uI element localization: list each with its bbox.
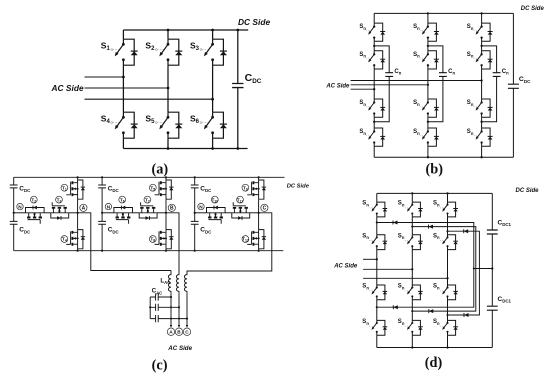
transistor T11 (c) xyxy=(232,213,250,218)
switch Sn leg3 pos3 (d) xyxy=(448,285,456,300)
wire phase C to transformer (c) xyxy=(187,213,272,271)
transistor T9 (c) xyxy=(258,180,260,199)
wire DC+ top rail (c) xyxy=(14,176,285,178)
switch Sn leg3 pos3 (b) xyxy=(482,99,491,117)
node top rail leg3 (b) xyxy=(480,12,482,14)
svg-text:Sn: Sn xyxy=(413,100,420,107)
node flying-cap top leg 2 (b) xyxy=(427,45,429,47)
wire phase leg 3 (b) xyxy=(481,13,483,157)
wire DC-link vertical (a) xyxy=(237,30,239,149)
node bottom rail leg module 3 (c) xyxy=(258,250,260,252)
capacitor Cn leg 2 (b) xyxy=(439,73,447,77)
wire T2 to T3 (c) xyxy=(44,212,51,214)
wire module 3 DC-cap string (c) xyxy=(194,177,196,250)
svg-text:(b): (b) xyxy=(426,161,444,177)
node AC tap 2 (d) xyxy=(411,268,413,270)
inductor coil phase B (c) xyxy=(176,271,179,294)
wire T3 to leg (c) xyxy=(69,212,78,214)
wire phase leg 2 (a) xyxy=(167,30,169,149)
svg-text:Sn: Sn xyxy=(362,201,369,208)
svg-text:AC Side: AC Side xyxy=(333,264,358,270)
clamp diode upper leg 2 (d) xyxy=(412,227,476,269)
wire DC- bottom rail (b) xyxy=(374,156,513,158)
switch Sn leg3 pos1 (b) xyxy=(482,23,491,41)
switch Sn leg1 pos4 (d) xyxy=(377,320,385,335)
wire T6 to T7 (c) xyxy=(133,212,140,214)
capacitor Cn leg 3 (b) xyxy=(493,73,501,77)
node bottom rail leg module 2 (c) xyxy=(165,250,167,252)
switch Sn leg2 pos4 (d) xyxy=(412,320,420,335)
svg-text:Sn: Sn xyxy=(362,233,369,240)
wire DC-link vertical (b) xyxy=(512,13,514,157)
switch S6 (a) xyxy=(213,112,224,138)
wire phase A drop (c) xyxy=(170,294,172,327)
node top rail leg2 (b) xyxy=(427,12,429,14)
clamp diode upper leg 3 (d) xyxy=(448,231,480,268)
wire DC- bottom rail (c) xyxy=(14,250,284,252)
node bottom rail leg3 (b) xyxy=(480,156,482,158)
clamp diode lower leg 1 (d) xyxy=(377,269,474,308)
svg-text:Sn: Sn xyxy=(398,233,405,240)
svg-text:Sn: Sn xyxy=(467,100,474,107)
switch Sn leg2 pos1 (b) xyxy=(428,23,437,41)
node bottom rail leg2 (a) xyxy=(167,147,170,150)
node bottom rail module 3 left (c) xyxy=(194,250,196,252)
node N module 1 (c) xyxy=(13,212,15,214)
svg-text:Sn: Sn xyxy=(362,319,369,326)
svg-text:B: B xyxy=(170,206,174,212)
node filter tap 1 (c) xyxy=(170,296,172,298)
transistor T3 (c) xyxy=(51,213,69,218)
filter capacitor bus (c) xyxy=(149,297,151,319)
svg-text:AC Side: AC Side xyxy=(51,83,84,93)
switch Sn leg1 pos3 (b) xyxy=(374,99,383,117)
svg-text:C: C xyxy=(263,206,267,212)
node phase output module 3 (c) xyxy=(258,212,260,214)
wire neutral tie (d) xyxy=(474,268,493,270)
svg-text:Sn: Sn xyxy=(433,201,440,208)
svg-text:(c): (c) xyxy=(152,358,168,374)
node top rail leg3 (d) xyxy=(446,192,448,194)
wire phase B to transformer (c) xyxy=(166,213,179,271)
transistor T1 (c) xyxy=(77,180,79,199)
wire AC line 1 (a) xyxy=(85,76,124,78)
svg-text:AC Side: AC Side xyxy=(325,83,350,89)
inductor coil phase C (c) xyxy=(184,271,187,294)
svg-text:A: A xyxy=(82,206,86,212)
node neutral / DC-link midpoint (d) xyxy=(491,267,493,269)
node flying-cap top leg 3 (b) xyxy=(480,45,482,47)
transistor T4 (c) xyxy=(77,230,79,249)
svg-text:DC Side: DC Side xyxy=(516,188,540,194)
node top rail leg2 (a) xyxy=(167,29,170,32)
capacitor CDC top module 2 (c) xyxy=(98,185,106,188)
capacitor CDC bottom module 2 (c) xyxy=(98,221,106,224)
switch Sn leg2 pos3 (d) xyxy=(412,285,420,300)
svg-text:Cn: Cn xyxy=(448,69,455,76)
clamp diode upper leg 1 (d) xyxy=(377,223,474,269)
node AC tap 3 (b) xyxy=(373,88,375,90)
wire phase leg 1 (b) xyxy=(373,13,375,157)
switch S3 (a) xyxy=(213,39,224,65)
switch S5 (a) xyxy=(168,112,179,138)
inductor coil phase A (c) xyxy=(168,271,171,294)
switch Sn leg3 pos4 (b) xyxy=(482,128,491,146)
svg-text:Sn: Sn xyxy=(467,129,474,136)
node bottom rail leg3 (a) xyxy=(211,147,214,150)
svg-text:Sn: Sn xyxy=(398,284,405,291)
wire phase leg 1 (a) xyxy=(122,30,124,149)
node filter tap 3 (c) xyxy=(186,318,188,320)
svg-text:Sn: Sn xyxy=(413,52,420,59)
wire AC line 3 (a) xyxy=(85,98,213,100)
capacitor CDC top module 1 (c) xyxy=(10,185,18,188)
node bottom rail leg module 1 (c) xyxy=(77,250,79,252)
wire phase leg 2 (b) xyxy=(427,13,429,157)
switch Sn leg1 pos3 (d) xyxy=(377,285,385,300)
wire N to T10 (c) xyxy=(195,212,207,214)
capacitor CDC (a) xyxy=(232,84,243,88)
switch Sn leg1 pos4 (b) xyxy=(374,128,383,146)
node flying-cap bottom leg 2 (b) xyxy=(427,121,429,123)
node AC tap 2 (a) xyxy=(167,87,170,90)
node top rail leg2 (d) xyxy=(411,192,413,194)
wire phase leg module 2 (c) xyxy=(165,177,167,250)
switch Sn leg1 pos2 (d) xyxy=(377,235,385,250)
wire module 2 DC-cap string (c) xyxy=(101,177,103,250)
svg-text:DC Side: DC Side xyxy=(521,6,545,12)
node bottom rail module 2 left (c) xyxy=(101,250,103,252)
capacitor CDC top module 3 (c) xyxy=(191,185,199,188)
transistor T6 (c) xyxy=(114,208,133,213)
svg-text:DC Side: DC Side xyxy=(238,17,270,27)
node top rail leg module 3 (c) xyxy=(258,176,260,178)
svg-text:Sn: Sn xyxy=(413,129,420,136)
wire phase leg 3 (d) xyxy=(447,193,449,347)
svg-text:(d): (d) xyxy=(425,355,443,371)
svg-text:Sn: Sn xyxy=(433,284,440,291)
node AC tap 3 (d) xyxy=(446,277,448,279)
wire T11 to leg (c) xyxy=(250,212,259,214)
wire DC- bottom rail (d) xyxy=(377,347,493,349)
clamp diode lower leg 2 (d) xyxy=(412,269,476,312)
wire AC line 2 (a) xyxy=(85,87,169,89)
svg-text:N: N xyxy=(107,204,111,209)
transistor T5 (c) xyxy=(165,180,167,199)
wire AC line 2 (d) xyxy=(363,268,412,270)
flying capacitor branch leg 1 (b) xyxy=(374,46,389,122)
wire AC line 1 (b) xyxy=(351,80,482,82)
switch Sn leg2 pos3 (b) xyxy=(428,99,437,117)
node flying-cap bottom leg 1 (b) xyxy=(373,121,375,123)
switch S2 (a) xyxy=(168,39,179,65)
node crossing dots filter (c) xyxy=(170,306,172,308)
wire AC line 3 (b) xyxy=(351,88,375,90)
node N module 3 (c) xyxy=(194,212,196,214)
wire N to T2 (c) xyxy=(14,212,26,214)
node AC tap 1 (b) xyxy=(480,79,482,81)
node AC tap 3 (a) xyxy=(211,98,214,101)
wire DC-link vertical (d) xyxy=(491,193,493,347)
node N module 2 (c) xyxy=(101,212,103,214)
svg-text:AC Side: AC Side xyxy=(167,345,192,352)
capacitor CDC (b) xyxy=(508,84,519,88)
svg-text:DC Side: DC Side xyxy=(287,183,310,189)
svg-text:Cn: Cn xyxy=(502,69,509,76)
svg-text:Sn: Sn xyxy=(359,129,366,136)
node top rail leg module 1 (c) xyxy=(77,176,79,178)
capacitor CDC1 top (d) xyxy=(487,230,498,234)
node top rail module 2 left (c) xyxy=(101,176,103,178)
switch Sn leg2 pos2 (d) xyxy=(412,235,420,250)
node top rail / DC link (a) xyxy=(236,29,239,32)
transistor T12 (c) xyxy=(258,230,260,249)
switch Sn leg2 pos4 (b) xyxy=(428,128,437,146)
transistor T7 (c) xyxy=(139,213,157,218)
node flying-cap bottom leg 3 (b) xyxy=(480,121,482,123)
node filter tap 2 (c) xyxy=(178,306,180,308)
wire phase leg module 1 (c) xyxy=(77,177,79,250)
svg-text:Sn: Sn xyxy=(467,24,474,31)
wire T10 to T11 (c) xyxy=(225,212,232,214)
svg-text:Sn: Sn xyxy=(398,319,405,326)
svg-text:Sn: Sn xyxy=(398,201,405,208)
switch Sn leg1 pos1 (b) xyxy=(374,23,383,41)
capacitor CDC bottom module 3 (c) xyxy=(191,221,199,224)
wire DC+ top rail (d) xyxy=(377,192,493,194)
svg-text:Sn: Sn xyxy=(433,319,440,326)
wire DC- bottom rail (a) xyxy=(123,148,247,150)
wire phase leg 1 (d) xyxy=(376,193,378,347)
clamp diode lower leg 3 (d) xyxy=(448,269,480,316)
wire DC+ top rail (b) xyxy=(374,12,513,14)
switch Sn leg2 pos2 (b) xyxy=(428,51,437,69)
svg-text:Sn: Sn xyxy=(362,284,369,291)
node AC tap 2 (b) xyxy=(427,84,429,86)
svg-text:Sn: Sn xyxy=(413,24,420,31)
svg-text:Sn: Sn xyxy=(359,100,366,107)
node top rail leg3 (a) xyxy=(211,29,214,32)
flying capacitor branch leg 3 (b) xyxy=(482,46,497,122)
switch Sn leg1 pos2 (b) xyxy=(374,51,383,69)
node bottom rail leg2 (b) xyxy=(427,156,429,158)
node top rail module 3 left (c) xyxy=(194,176,196,178)
svg-text:Sn: Sn xyxy=(359,24,366,31)
arrow terminal A (c) xyxy=(170,325,172,328)
arrow terminal C (c) xyxy=(186,325,188,328)
wire phase leg 3 (a) xyxy=(212,30,214,149)
wire phase C drop (c) xyxy=(186,294,188,327)
node top rail leg module 2 (c) xyxy=(165,176,167,178)
transistor T2 (c) xyxy=(26,208,45,213)
wire phase leg 2 (d) xyxy=(411,193,413,347)
arrow terminal B (c) xyxy=(178,325,180,328)
wire DC+ top rail (a) xyxy=(123,29,248,31)
switch Sn leg1 pos1 (d) xyxy=(377,202,385,217)
switch Sn leg3 pos2 (d) xyxy=(448,235,456,250)
capacitor Cn leg 1 (b) xyxy=(385,73,393,77)
node phase output module 1 (c) xyxy=(77,212,79,214)
node AC tap 1 (d) xyxy=(376,258,378,260)
wire T7 to leg (c) xyxy=(157,212,166,214)
wire phase leg module 3 (c) xyxy=(258,177,260,250)
wire N to T6 (c) xyxy=(102,212,114,214)
switch Sn leg3 pos4 (d) xyxy=(448,320,456,335)
svg-text:Sn: Sn xyxy=(359,52,366,59)
node AC tap 1 (a) xyxy=(122,76,125,79)
node bottom rail leg3 (d) xyxy=(446,346,448,348)
node bottom rail leg2 (d) xyxy=(411,346,413,348)
node bottom rail / DC link (a) xyxy=(236,147,239,150)
filter capacitor 2 CAC (c) xyxy=(150,306,179,308)
svg-text:Sn: Sn xyxy=(433,233,440,240)
switch S4 (a) xyxy=(123,112,134,138)
transistor T10 (c) xyxy=(207,208,226,213)
wire phase B drop (c) xyxy=(178,294,180,327)
wire AC line 1 (d) xyxy=(363,258,377,260)
wire AC line 2 (b) xyxy=(351,84,428,86)
wire module 1 DC-cap string (c) xyxy=(13,177,15,250)
flying capacitor branch leg 2 (b) xyxy=(428,46,443,122)
svg-text:Sn: Sn xyxy=(467,52,474,59)
svg-text:Cn: Cn xyxy=(394,69,401,76)
wire AC line 3 (d) xyxy=(363,277,447,279)
svg-text:(a): (a) xyxy=(151,162,168,178)
wire phase A to transformer (c) xyxy=(78,213,171,271)
switch S1 (a) xyxy=(123,39,134,65)
node phase output module 2 (c) xyxy=(165,212,167,214)
capacitor CDC1 bottom (d) xyxy=(487,306,498,310)
filter capacitor 3 CAC (c) xyxy=(150,318,187,320)
node flying-cap top leg 1 (b) xyxy=(373,45,375,47)
switch Sn leg2 pos1 (d) xyxy=(412,202,420,217)
capacitor CDC bottom module 1 (c) xyxy=(10,221,18,224)
switch Sn leg3 pos2 (b) xyxy=(482,51,491,69)
filter capacitor 1 CAC (c) xyxy=(150,296,171,298)
transistor T8 (c) xyxy=(165,230,167,249)
switch Sn leg3 pos1 (d) xyxy=(448,202,456,217)
